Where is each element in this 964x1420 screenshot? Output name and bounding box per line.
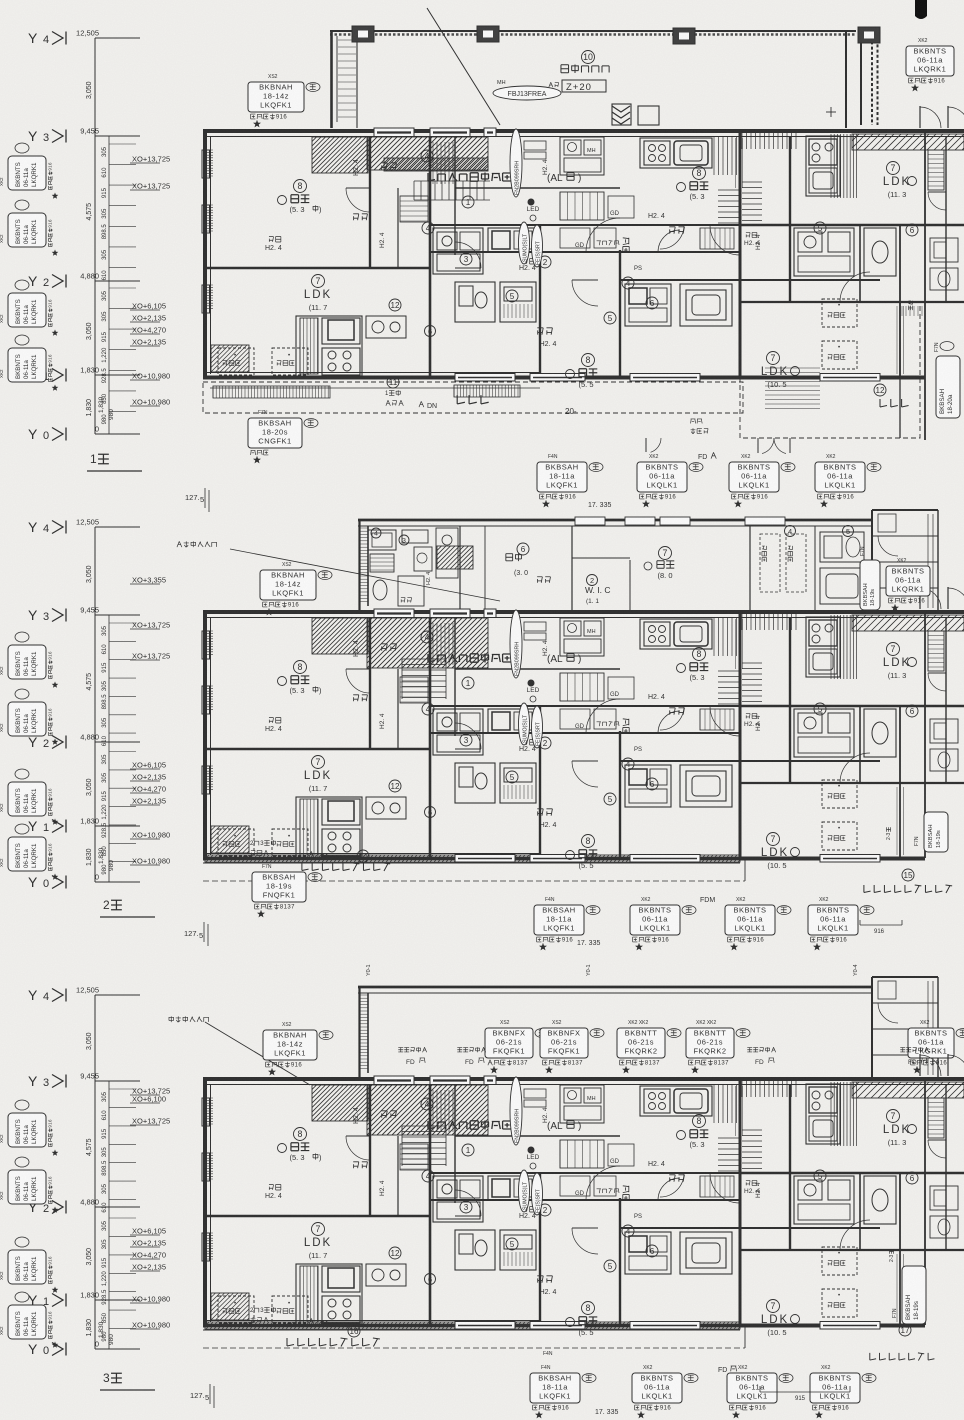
- outer wall bottom: [203, 857, 925, 861]
- kitchen unit right: [640, 138, 712, 168]
- room label right bedroom: [693, 1115, 706, 1128]
- fixing hook note floor3: [169, 1016, 209, 1022]
- far right column rooms: [945, 136, 947, 225]
- wall-spec label boxes (left margin): [15, 143, 29, 153]
- outer wall left: [203, 131, 207, 379]
- floor-1 caption: [90, 452, 109, 466]
- scan noise overlay: [0, 0, 1, 1]
- dashed boxes right terrace: [822, 299, 857, 327]
- top-right wall hatch strips: [742, 133, 796, 149]
- bath cluster right: [625, 1232, 671, 1274]
- room label bedroom 8.0: [659, 547, 672, 560]
- room label left bedroom: [294, 1128, 307, 1141]
- diagonal leader: [427, 8, 500, 125]
- kitchen unit right: [640, 619, 712, 649]
- bath cluster far right: [794, 228, 854, 276]
- room label kitchen: [517, 543, 529, 555]
- bath/wc cluster center: [433, 709, 483, 755]
- interior walls vertical: [369, 1084, 371, 1216]
- kitchen unit far right: [806, 136, 840, 196]
- hall label: [428, 173, 511, 182]
- room label bottom LDK: [767, 352, 780, 365]
- stair treads: [402, 1126, 446, 1165]
- closet labels: [381, 163, 396, 170]
- outer wall bottom: [203, 376, 925, 380]
- stair treads: [414, 181, 484, 200]
- right extension: [871, 510, 873, 611]
- upper rooms interior walls: [459, 526, 461, 611]
- door arcs: [586, 218, 620, 252]
- outer wall left: [203, 1079, 207, 1327]
- double door top right corner: [919, 106, 921, 128]
- scale bracket floor3: [760, 1391, 850, 1393]
- equipment oval labels: [510, 1077, 522, 1145]
- hall label: [428, 654, 511, 663]
- terrace hatch strips: [213, 386, 330, 398]
- bath cluster right: [625, 765, 671, 807]
- room label right bedroom: [693, 167, 706, 180]
- upper shelf labels: [269, 237, 281, 242]
- assorted circled numbers: [462, 1144, 474, 1156]
- right fixtures: [820, 532, 864, 562]
- FD labels: [398, 1047, 426, 1052]
- outer wall bottom: [203, 1324, 925, 1328]
- fixing hook note: [177, 541, 217, 547]
- equipment oval labels: [510, 610, 522, 678]
- door arcs: [586, 699, 620, 733]
- bath cluster far right: [794, 709, 854, 757]
- terrace dashed outline: [203, 382, 743, 413]
- futon dashed boxes: [760, 534, 780, 592]
- kitchen unit far right: [806, 617, 840, 677]
- wc cluster center-2: [455, 1230, 495, 1270]
- closet shelving: [433, 142, 453, 184]
- corridor label: [623, 238, 629, 253]
- room label right LDK: [887, 162, 900, 175]
- interior walls horizontal: [204, 1215, 430, 1217]
- windows top wall: [374, 1076, 414, 1085]
- upper shelf labels: [269, 1185, 281, 1190]
- upper-left bath fixtures: [368, 530, 396, 550]
- outer wall left: [203, 612, 207, 860]
- kitchen unit left LDK: [296, 1264, 362, 1324]
- vertical label box floor2 lower right: [924, 812, 948, 852]
- beranda bottom floor3: [203, 1329, 740, 1331]
- bath/wc cluster center: [433, 228, 483, 274]
- corridor label: [623, 1186, 629, 1201]
- interior walls horizontal: [204, 267, 430, 269]
- futon-drying dashed boxes: [218, 348, 254, 375]
- room label bottom LDK: [767, 1300, 780, 1313]
- outer wall top: [203, 1077, 964, 1081]
- interior walls horizontal: [204, 748, 430, 750]
- wash corner center: [560, 1085, 604, 1123]
- window marks top: [575, 517, 605, 525]
- wall-spec label boxes (left margin): [15, 632, 29, 642]
- upper strip outline: [358, 986, 872, 989]
- room label left LDK: [312, 275, 325, 288]
- floor-3 caption: [103, 1371, 122, 1385]
- room label bottom LDK: [767, 833, 780, 846]
- closet shelving: [433, 1090, 453, 1132]
- upper strip outline: [358, 519, 872, 522]
- room label right bedroom: [693, 648, 706, 661]
- dashed boxes right terrace: [822, 1247, 857, 1275]
- interior walls vertical: [369, 136, 371, 268]
- porch block outline: [330, 30, 856, 32]
- futon-drying dashed boxes: [218, 829, 254, 856]
- corridor label: [623, 719, 629, 734]
- beranda bottom floor2: [203, 862, 740, 864]
- windows bottom wall: [455, 855, 515, 863]
- crenellated edge: [871, 31, 873, 125]
- windows top wall: [374, 128, 414, 137]
- top-right wall hatch strips: [742, 1081, 796, 1097]
- equipment oval labels: [510, 129, 522, 197]
- right terrace: [740, 302, 920, 438]
- cabinet grid center: [560, 192, 604, 220]
- hall label: [428, 1121, 511, 1130]
- wc cluster center-2: [455, 763, 495, 803]
- cabinet grid center: [560, 1140, 604, 1168]
- wash corner center: [560, 618, 604, 656]
- far right column rooms: [945, 617, 947, 706]
- room label bottom bedroom: [582, 835, 595, 848]
- stair right unit: [718, 190, 740, 223]
- right extension: [871, 977, 873, 1078]
- door arcs: [586, 1166, 620, 1200]
- outer wall top: [203, 129, 964, 133]
- dashed boxes right terrace: [822, 780, 857, 808]
- terrace labels: [385, 390, 401, 397]
- terrace door arcs floor1: [645, 438, 647, 452]
- windows bottom wall: [455, 1322, 515, 1330]
- vertical label box floor3 right: [902, 1266, 926, 1324]
- left wall window hatches: [205, 150, 213, 176]
- closet label: [537, 577, 550, 583]
- kitchen unit right: [640, 1086, 712, 1116]
- porch deco bottom: [612, 106, 630, 124]
- cabinet grid center: [560, 673, 604, 701]
- outer wall top: [203, 610, 964, 614]
- windows bottom wall: [455, 374, 515, 382]
- top-right wall hatch strips: [742, 614, 796, 630]
- far right column rooms: [945, 1084, 947, 1173]
- left wall window hatches: [205, 631, 213, 654]
- room label right LDK: [887, 643, 900, 656]
- windows top wall: [374, 609, 414, 618]
- porch labels: [582, 51, 595, 64]
- room label left bedroom: [294, 661, 307, 674]
- kitchen unit left LDK: [296, 316, 362, 376]
- wc cluster center-2: [455, 282, 495, 322]
- closet labels: [381, 1111, 396, 1118]
- wall-spec label boxes (left margin): [15, 1100, 29, 1110]
- room label left LDK: [312, 756, 325, 769]
- kitchen counter: [436, 528, 458, 578]
- room label right LDK: [887, 1110, 900, 1123]
- closet labels: [381, 644, 396, 651]
- room label left LDK: [312, 1223, 325, 1236]
- room label bottom bedroom: [582, 1302, 595, 1315]
- assorted circled numbers: [462, 196, 474, 208]
- stair treads: [402, 659, 446, 698]
- floor-2 caption: [103, 898, 122, 912]
- interior walls vertical: [369, 617, 371, 749]
- scale bracket: [860, 924, 902, 926]
- kitchen unit left LDK: [296, 797, 362, 857]
- double door top right corner: [919, 1054, 921, 1076]
- registration mark bar: [915, 0, 927, 16]
- left wall window hatches: [205, 1098, 213, 1124]
- wash corner center: [560, 137, 604, 175]
- bath cluster right: [625, 284, 671, 326]
- kitchen unit far right: [806, 1084, 840, 1144]
- bath/wc cluster center: [433, 1176, 483, 1222]
- upper-left extra fixtures: [402, 530, 428, 543]
- assorted circled numbers: [462, 677, 474, 689]
- closet shelving: [433, 623, 453, 665]
- stair right unit: [718, 1138, 740, 1171]
- top wall checkered squares: [352, 26, 374, 42]
- room label left bedroom: [294, 180, 307, 193]
- upper shelf labels: [269, 718, 281, 723]
- room label bottom bedroom: [582, 354, 595, 367]
- bath cluster far right: [794, 1176, 854, 1224]
- double door top right corner: [919, 587, 921, 609]
- stair right unit: [718, 671, 740, 704]
- futon-drying dashed boxes: [218, 1296, 254, 1323]
